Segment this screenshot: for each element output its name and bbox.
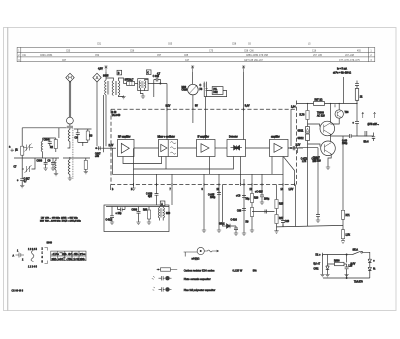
ceramic disc tail [170, 277, 172, 279]
svg-text:C600–C954: C600–C954 [40, 55, 53, 57]
T607 internals [325, 143, 332, 156]
C647 dot [96, 148, 97, 149]
wire R670 to diodes [307, 120, 309, 127]
svg-text:at P​o = 82–100 Ω: at P​o = 82–100 Ω [333, 72, 351, 75]
decoupling branch [316, 148, 320, 220]
svg-text:R.70: R.70 [300, 115, 306, 117]
svg-text:GR12: GR12 [298, 138, 305, 140]
svg-text:GR11: GR11 [298, 131, 305, 133]
S608 leads [140, 80, 148, 97]
filter hatch [129, 82, 132, 86]
table row line 1 [17, 51, 375, 53]
cap C629 [281, 185, 285, 227]
R606 ground lead [148, 219, 150, 222]
svg-text:AC 128: AC 128 [317, 115, 325, 118]
svg-text:4,5V: 4,5V [98, 69, 103, 71]
diode GR611 [306, 127, 310, 134]
switch contact circle [361, 251, 363, 253]
generator dot [200, 250, 201, 251]
chain ground [242, 233, 246, 235]
R604 ground [85, 169, 87, 171]
pin numbers bottom [131, 189, 284, 191]
svg-text:C56: C56 [130, 51, 135, 53]
trimmer C607 [25, 165, 32, 173]
trimmer C602 ticks [23, 147, 33, 149]
RF amp triangle [121, 143, 129, 153]
capacitor C628 [155, 185, 159, 206]
C624 ground [234, 233, 238, 235]
branch wire left column [327, 255, 329, 267]
pin stub 133 [133, 169, 135, 185]
diamond A glyph [96, 76, 98, 79]
svg-text:C58: C58 [232, 43, 237, 45]
svg-text:3,1V: 3,1V [166, 105, 171, 107]
pin stub 156 [156, 174, 158, 184]
output arrow 2 [374, 112, 376, 118]
wire from diamond A down [96, 82, 98, 146]
S608 ground [141, 96, 145, 98]
R668 top cap [355, 81, 359, 89]
osc block wires [204, 91, 226, 97]
junction to switch [347, 254, 353, 256]
T606 collector wire [338, 104, 340, 110]
svg-text:2,2V: 2,2V [296, 145, 301, 147]
electrolytic C620 [242, 196, 246, 198]
FM input connector C647 [96, 146, 104, 150]
cap C605 to ground [44, 158, 48, 168]
svg-text:D02: D02 [213, 92, 218, 94]
bias drop from rail [307, 104, 309, 111]
svg-text:1 2 3 4 5: 1 2 3 4 5 [28, 266, 38, 268]
left ground [320, 275, 324, 277]
ferrite rod core (dotted) [72, 129, 74, 180]
switch to right corner [363, 252, 370, 258]
legend resistor body [161, 268, 171, 271]
bias chain continues down [307, 148, 309, 227]
wire right of rod [74, 128, 92, 130]
transformer S602 core [115, 81, 116, 95]
parts index table frame [17, 47, 375, 61]
svg-text:L57 L65: L57 L65 [313, 55, 323, 57]
left corner pin stub [110, 185, 112, 191]
generator symbol wire [184, 252, 197, 257]
transistor T608 [320, 121, 335, 136]
signal wire RF to mixer [134, 147, 159, 149]
ferrite winding L1 [68, 130, 70, 142]
signal wire AF out [288, 147, 297, 149]
svg-text:C-612: C-612 [106, 220, 113, 222]
jack contact bars [365, 131, 374, 137]
strip mid line [51, 255, 86, 257]
electrolytic C625 [260, 185, 264, 203]
C617 ground [20, 186, 24, 188]
T607 ground [326, 167, 330, 169]
oscillator inner box [167, 140, 169, 157]
tie bar under C609/R603 [78, 142, 88, 146]
detector diode [231, 145, 243, 150]
svg-text:C 628: C 628 [146, 193, 153, 195]
svg-text:R67 1Ω: R67 1Ω [315, 100, 323, 102]
GR611 glyph [306, 128, 309, 131]
svg-text:AC 128: AC 128 [313, 160, 321, 163]
S605 leads down [104, 95, 106, 152]
svg-text:·17≡ ¯28· 3˄ ٱ⁝ ·45≡: ·17≡ ¯28· 3˄ ٱ⁝ ·45≡ [52, 253, 87, 256]
connector dot [290, 147, 291, 148]
svg-text:L7N: L7N [302, 161, 307, 163]
pin tick marks bottom edge [134, 183, 295, 186]
S602 ground [121, 97, 125, 99]
IC dashed outline [111, 101, 297, 185]
signal wire det to AF [246, 147, 270, 149]
S628 core [161, 208, 162, 218]
electrolytic C645 [217, 190, 221, 194]
coupling circle on feeder [67, 117, 74, 124]
svg-text:C47: C47 [185, 60, 190, 62]
svg-text:PH.: PH. [213, 89, 217, 91]
filter SF E10.7 [127, 82, 135, 86]
feedback wire x343 [342, 136, 344, 210]
base wire T607 [308, 144, 321, 147]
S608 core [142, 81, 143, 88]
series resistor R667 [314, 102, 325, 106]
resistor R671 [341, 210, 344, 219]
left branch down [322, 255, 324, 275]
oscillator sine glyphs [170, 142, 176, 155]
wire y83.5 segment1 [124, 83, 138, 85]
svg-text:0.125 W: 0.125 W [233, 268, 243, 272]
test point box C [146, 70, 151, 75]
svg-text:+ 10µ: + 10µ [116, 213, 123, 215]
resistor R606 [148, 207, 150, 211]
svg-text:C57: C57 [157, 55, 162, 57]
svg-text:C850–C854 C76 C58: C850–C854 C76 C58 [246, 55, 269, 57]
RF amplifier box [118, 140, 135, 157]
bottom rail y225 [277, 225, 344, 227]
detector output chain wire [243, 185, 245, 234]
pin wire 204 ground [203, 185, 205, 231]
svg-text:1 2 3 4 5: 1 2 3 4 5 [28, 249, 38, 251]
svg-text:+C0: +C0 [236, 196, 241, 198]
resistor R672 [341, 230, 344, 239]
C605 ground [43, 168, 47, 170]
legend resistor symbol [157, 269, 178, 271]
strip divider 3 [71, 251, 73, 261]
wire drop left [21, 128, 23, 147]
resistor R602 [54, 140, 57, 149]
C625 ground [260, 202, 264, 204]
twin feeder wires from diamond M [69, 82, 70, 118]
faint header refs above table [97, 43, 311, 45]
svg-text:LW 150 – 350 kHz (MW) = 51: LW 150 – 350 kHz (MW) = 517 kHz [41, 218, 78, 220]
cluster top tie [43, 138, 56, 152]
pin stub 262 [261, 174, 263, 184]
IF amp box [197, 140, 216, 157]
left page edge shadow [7, 28, 9, 311]
T608 collector wire [330, 104, 332, 123]
bias feed line [342, 77, 344, 104]
antenna diamond M [66, 73, 74, 82]
pin stub 204 [203, 174, 205, 184]
bandfilter S608 outer box [138, 79, 148, 91]
svg-text:SFE10,7: SFE10,7 [125, 80, 135, 82]
wire diodes down [307, 141, 309, 149]
trimmer C602 [25, 144, 32, 152]
driver transformer S628 [158, 208, 159, 218]
supply arrow right [242, 66, 245, 72]
svg-text:I​o = 5 mA: I​o = 5 mA [337, 68, 347, 71]
svg-text:30µ: 30µ [246, 199, 251, 201]
svg-text:L67–L68: L67–L68 [345, 55, 355, 57]
signal wire IF to det [215, 147, 227, 149]
resistor R604 [85, 158, 87, 160]
T606 internals [337, 111, 341, 118]
svg-text:C610: C610 [182, 90, 188, 92]
svg-text:5R-6: 5R-6 [364, 142, 370, 144]
ground under L2 [68, 178, 72, 180]
resistor R668 [355, 89, 358, 101]
pot lower lead [276, 224, 278, 231]
C643 left branch [153, 80, 155, 98]
svg-text:CS 64 44 8: CS 64 44 8 [12, 291, 24, 293]
S608 primary coil [139, 81, 140, 89]
svg-text:C52: C52 [95, 55, 100, 57]
svg-text:100µ: 100µ [264, 199, 270, 201]
svg-text:GR7 L65 L66–L67: GR7 L65 L66–L67 [244, 60, 263, 62]
R626 ground [250, 230, 254, 232]
C643b ground [344, 275, 348, 277]
transformer S602 secondary [118, 81, 119, 96]
tuning gang M60/C610 [188, 84, 199, 95]
svg-text:GR-2: GR-2 [219, 224, 225, 226]
AF coupling box [104, 205, 169, 232]
svg-text:1,5V: 1,5V [289, 189, 294, 191]
electrolytic C612 [110, 207, 114, 223]
wire top rail left [22, 127, 66, 129]
C608b ground [136, 222, 140, 224]
svg-text:R28: R28 [254, 198, 259, 200]
coupling cap C674 [355, 104, 359, 137]
svg-text:5V: 5V [195, 105, 198, 107]
transistor T606 [335, 110, 343, 118]
link wire y211 [252, 211, 275, 213]
cap C624 [234, 226, 238, 233]
svg-text:Mixer + oscillator: Mixer + oscillator [158, 135, 176, 138]
transistor T607 [321, 141, 336, 156]
S628 leads [160, 207, 164, 221]
S628 secondary [163, 208, 164, 218]
wire through to bias chain [299, 147, 319, 149]
strip divider 1 [57, 251, 59, 261]
wire arrow to gang [192, 72, 194, 84]
svg-text:C77–C78–C79–C75: C77–C78–C79–C75 [339, 60, 360, 62]
svg-text:TS608: TS608 [317, 113, 324, 115]
svg-text:TAA 840: TAA 840 [112, 114, 121, 117]
pin stub 172 [171, 174, 173, 184]
diode GR641 [326, 266, 329, 275]
osc block box [212, 87, 223, 95]
coil S611 ground lead [55, 170, 57, 174]
svg-text:S28: S28 [166, 213, 171, 215]
aerial bars [16, 253, 25, 258]
svg-text:C-645: C-645 [208, 195, 215, 197]
generator arrow [213, 250, 218, 252]
svg-text:C75: C75 [209, 51, 214, 53]
DIN connector strip frame [51, 251, 86, 261]
bottom rail dot [346, 277, 347, 278]
R671 to rail [342, 219, 344, 229]
svg-text:(375 mW→: (375 mW→ [368, 124, 380, 126]
resistor R601 [21, 146, 24, 155]
ferrite winding L2 [68, 160, 70, 175]
svg-text:mV(k)Ω: mV(k)Ω [192, 258, 200, 260]
pin stub 240 [240, 174, 242, 184]
jack cap [372, 133, 375, 142]
svg-text:C58 C66: C58 C66 [244, 51, 254, 53]
svg-text:C 643: C 643 [153, 76, 160, 78]
cap C609 [76, 129, 80, 142]
pot ground [274, 231, 278, 233]
coil S601 leads [42, 138, 44, 158]
svg-text:C65: C65 [168, 43, 173, 45]
output arrows [362, 112, 364, 118]
coil S601 [41, 141, 42, 151]
pin wire 219 ground [218, 185, 220, 231]
pin wire 292 down [295, 185, 297, 227]
gang arrow [189, 85, 197, 93]
wire to mixer [166, 84, 168, 140]
link cap [265, 210, 267, 214]
svg-text:S605: S605 [103, 76, 109, 78]
ferrite winding L2 leads [69, 157, 71, 178]
feedback mixer drop [165, 157, 167, 170]
svg-text:MW 520 – 1600 kHz 273,5 = 19: MW 520 – 1600 kHz 273,5 = 1972,5 kHz [40, 221, 81, 223]
R626 lead [251, 217, 253, 231]
junction dot [160, 83, 161, 84]
rail junction dots [307, 103, 358, 104]
strip divider 2 [64, 251, 66, 261]
S602 secondary leads [118, 78, 123, 97]
strip divider 4 [78, 251, 80, 261]
foil cap tail [170, 288, 172, 290]
ceramic disc blob [165, 276, 169, 280]
wire arrow to detector [243, 72, 245, 140]
supply arrow mid [191, 66, 194, 72]
svg-text:RF amplifier: RF amplifier [118, 135, 131, 138]
R680 wires [328, 263, 347, 265]
svg-text:S 40: S 40 [112, 112, 117, 114]
legend ceramic symbol [152, 276, 155, 279]
IF amp triangle [201, 144, 209, 153]
pin wire 172 down [171, 185, 173, 206]
wire arrow to coil [105, 72, 107, 80]
diode GR645 [368, 259, 371, 268]
wire R601 to rail [21, 155, 23, 158]
wire gang to pin [192, 95, 194, 109]
rail pin tick [334, 104, 336, 107]
volume pot R630 upper [276, 185, 278, 200]
svg-text:TS607: TS607 [313, 158, 320, 160]
diode GR612 [306, 134, 310, 141]
pin stub 252 [251, 174, 253, 184]
ceramic cap plates [159, 276, 165, 280]
generator circle [197, 247, 204, 254]
svg-text:Detector: Detector [229, 135, 238, 138]
cap C606 to ground [51, 158, 55, 168]
node rail y158 [14, 157, 59, 159]
svg-text:1,04: 1,04 [291, 107, 296, 109]
transformer S602 primary [112, 81, 113, 96]
generator wavy [204, 250, 213, 252]
mixer triangle [161, 144, 167, 151]
svg-text:5,4V: 5,4V [245, 105, 250, 107]
legend resistor dot [158, 269, 159, 270]
AF amp triangle [274, 144, 282, 153]
C606 ground [51, 168, 55, 170]
svg-text:TAA 570: TAA 570 [354, 281, 363, 284]
svg-text:C65: C65 [184, 55, 189, 57]
diode GR646 [368, 267, 371, 278]
T608 internals [324, 123, 331, 136]
cap C630 [242, 209, 246, 211]
pin stub 283 [282, 174, 284, 184]
feedback long rail [113, 148, 284, 174]
svg-text:C67: C67 [62, 60, 67, 62]
feedback wire mixer loop [134, 148, 234, 169]
electrolytic C613 horizontal [118, 207, 126, 212]
test point box B [117, 70, 122, 75]
pin stub below junction [297, 148, 299, 153]
S605 core [108, 81, 109, 95]
T606 emitter wire [331, 118, 340, 124]
ferrite winding L1 lead [68, 142, 70, 149]
detector box [227, 140, 246, 157]
pin tick marks top edge [167, 108, 244, 111]
svg-text:SK-A: SK-A [353, 248, 359, 251]
svg-text:Plas foil polyester capacitor: Plas foil polyester capacitor [184, 288, 216, 292]
mixer box [159, 140, 178, 157]
svg-text:+C-625: +C-625 [255, 192, 263, 194]
switch SK-A lever [353, 251, 361, 254]
resistor above rail [356, 100, 358, 103]
svg-text:C16: C16 [312, 51, 317, 53]
C673 ground [316, 220, 320, 222]
svg-text:⁝92· ≡04¯ ·75≡ 1˄3 ⁝86·: ⁝92· ≡04¯ ·75≡ 1˄3 ⁝86· [52, 258, 86, 261]
pin ground 133 [133, 185, 135, 189]
wire cluster to rod [58, 128, 60, 138]
svg-text:Carbon resistor E24 series: Carbon resistor E24 series [184, 268, 215, 272]
svg-text:R680: R680 [334, 261, 340, 263]
svg-text:C647: C647 [95, 154, 101, 156]
crystal plates [203, 84, 208, 91]
box inner rail [106, 206, 169, 208]
diamond M glyph [69, 76, 72, 79]
svg-text:¼: ¼ [373, 268, 375, 271]
edge terminal bars [11, 149, 16, 153]
R603 lower lead [87, 140, 89, 142]
svg-text:C-624: C-624 [231, 220, 238, 222]
svg-text:Plate ceramic capacitor: Plate ceramic capacitor [184, 277, 211, 281]
small bracket marks [45, 248, 48, 264]
5V pin continuation [192, 111, 194, 123]
resistor R628 [251, 185, 253, 194]
wire trimmer2 [22, 158, 35, 169]
T608 emitter to mid [330, 134, 332, 141]
R672 lead [342, 239, 344, 241]
capacitor C608b [137, 207, 141, 223]
supply branch to output pin [290, 109, 292, 146]
pin stub 244 [243, 179, 245, 185]
svg-text:amplifier: amplifier [271, 135, 280, 138]
